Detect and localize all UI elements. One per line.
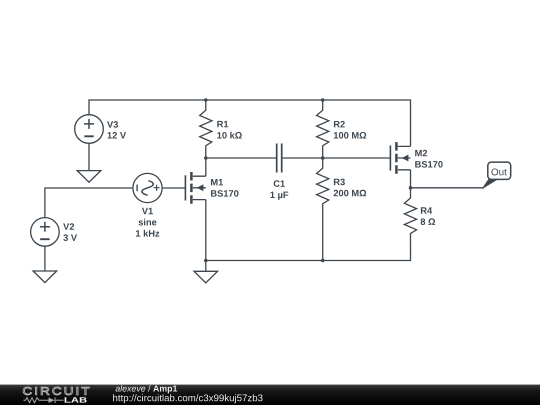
- voltage source V3: [75, 115, 104, 171]
- footer title: [116, 385, 178, 393]
- wire ground stub: [205, 261, 207, 272]
- label R3: [334, 179, 345, 186]
- wire M1 drain: [205, 158, 207, 176]
- resistor R2: [317, 100, 329, 158]
- label M1: [211, 179, 223, 185]
- wire output: [411, 187, 485, 189]
- ground (bottom rail): [194, 271, 218, 283]
- wire R3 to bottom rail: [322, 217, 324, 261]
- wire top rail: [89, 100, 411, 146]
- label V3: [107, 121, 118, 128]
- resistor R1: [200, 100, 212, 158]
- resistor R4: [404, 188, 416, 247]
- wire V2 to V1: [45, 188, 133, 218]
- resistor R3: [317, 158, 329, 217]
- transistor M2 BS170: [390, 142, 410, 174]
- node dot bottom left: [204, 259, 208, 263]
- ground (below V2): [33, 271, 57, 283]
- logo CIRCUIT: [23, 387, 89, 395]
- logo LAB: [65, 397, 87, 402]
- transistor M1 BS170: [185, 172, 205, 204]
- logo doodle resistor-diode: [24, 397, 64, 403]
- node dot R3 bottom: [321, 259, 325, 263]
- node dot R1 top: [204, 98, 208, 102]
- wire bottom rail: [206, 246, 411, 260]
- wire M2 source: [410, 170, 412, 188]
- voltage source V1 sine: [133, 173, 186, 202]
- out flag: [482, 162, 510, 189]
- label Out: [491, 168, 506, 175]
- label V2: [63, 223, 74, 229]
- wire mid rail right: [282, 157, 391, 159]
- wire mid rail left: [206, 157, 277, 159]
- label R1: [217, 121, 228, 127]
- label M2: [415, 150, 427, 156]
- ground (below V3): [77, 171, 101, 183]
- node dot R1 bottom: [204, 156, 208, 160]
- wire M1 source: [205, 200, 207, 261]
- footer url: [113, 394, 262, 403]
- label V1: [142, 208, 153, 214]
- node dot R2 top: [321, 98, 325, 102]
- capacitor C1: [277, 144, 282, 173]
- label R4: [421, 207, 432, 213]
- node dot output: [409, 186, 413, 190]
- node dot R2-R3 junction: [321, 156, 325, 160]
- label C1: [274, 180, 285, 187]
- voltage source V2: [31, 218, 60, 271]
- label R2: [334, 121, 345, 127]
- footer bar: [0, 385, 540, 405]
